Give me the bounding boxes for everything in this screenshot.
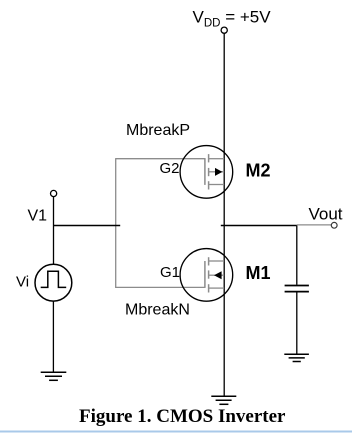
wire V1 node (horizontal to gate bus) (53, 225, 120, 227)
capacitor top lead (296, 226, 298, 285)
svg-text:G2: G2 (160, 160, 180, 177)
capacitor CL (285, 226, 309, 355)
M2 bulk stub (209, 171, 225, 173)
transistor M1 (MbreakN, NMOS) (180, 249, 233, 302)
M2 source stub (209, 184, 225, 186)
M2 drain stub (209, 158, 225, 160)
transistor M2 (MbreakP, PMOS) (180, 146, 233, 199)
M1 source stub (209, 287, 225, 289)
M2 channel segment middle (208, 168, 210, 176)
bottom rule (light blue) (0, 431, 352, 433)
M2 channel segment bottom (208, 181, 210, 189)
ground (below M1 rail) (211, 396, 236, 404)
capacitor bottom lead (296, 292, 298, 354)
M1 channel segment middle (208, 270, 210, 278)
capacitor bottom plate (285, 291, 309, 293)
M1 body circle (180, 249, 233, 302)
wire V1 terminal to Vi source (53, 197, 55, 264)
wire VDD rail (vertical, VDD to ground) (223, 34, 225, 397)
wire Vout node (horizontal) (221, 225, 297, 227)
M2 gate bar (204, 158, 206, 185)
M1 gate bar (204, 261, 206, 288)
M1 bulk stub (209, 274, 225, 276)
M2 bulk arrow (points right, PMOS) (215, 168, 222, 176)
ground (below Vi) (41, 372, 67, 380)
wire Vi source to ground (52, 301, 54, 372)
M1 channel segment bottom (208, 284, 210, 292)
svg-text:MbreakP: MbreakP (126, 122, 190, 139)
M2 channel segment top (208, 154, 210, 162)
source Vi (pulse source) (35, 264, 72, 301)
svg-text:M2: M2 (246, 161, 271, 181)
terminal VDD (open circle) (221, 27, 227, 33)
terminal V1 (open circle) (51, 190, 57, 196)
M1 drain stub (209, 260, 225, 262)
M1 bulk arrow (points left, NMOS) (214, 271, 222, 279)
svg-text:MbreakN: MbreakN (125, 302, 190, 319)
capacitor top plate (285, 285, 309, 287)
svg-text:V1: V1 (28, 207, 48, 224)
svg-text:Vi: Vi (16, 274, 29, 291)
terminal Vout (open circle) (331, 222, 337, 228)
M2 body circle (180, 146, 233, 199)
wire gate of M1 (horizontal) (116, 286, 205, 288)
wire gate bus (vertical) (115, 158, 117, 288)
ground (below capacitor) (284, 354, 309, 361)
svg-text:Figure 1. CMOS Inverter: Figure 1. CMOS Inverter (79, 406, 286, 427)
Vi pulse waveform (41, 271, 66, 287)
Vi circle (35, 264, 72, 301)
svg-text:M1: M1 (246, 263, 271, 283)
M1 channel segment top (208, 257, 210, 265)
svg-text:Vout: Vout (309, 205, 343, 224)
svg-text:G1: G1 (160, 264, 180, 281)
wire gate of M2 (horizontal) (116, 158, 205, 160)
wire Vout terminal lead (297, 224, 332, 226)
